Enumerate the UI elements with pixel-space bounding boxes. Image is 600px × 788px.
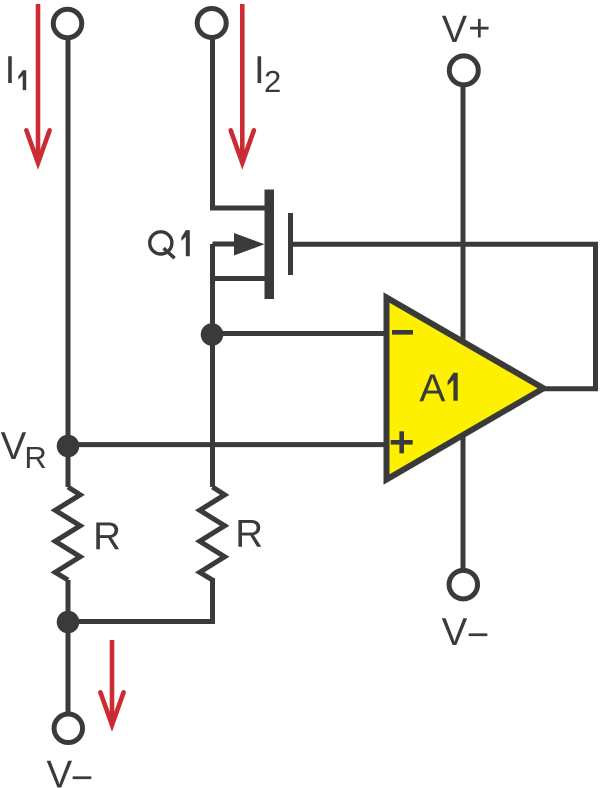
svg-text:A: A (419, 368, 445, 411)
svg-text:V: V (1, 425, 27, 468)
svg-text:V: V (442, 611, 468, 654)
svg-text:+: + (468, 8, 490, 50)
svg-text:−: − (71, 757, 93, 788)
svg-text:R: R (24, 440, 46, 475)
svg-text:R: R (93, 515, 121, 558)
svg-text:2: 2 (264, 64, 281, 99)
svg-text:V: V (47, 753, 73, 788)
svg-text:V: V (442, 9, 468, 51)
svg-text:−: − (467, 614, 489, 657)
svg-text:I: I (5, 49, 16, 92)
svg-text:R: R (235, 513, 263, 556)
